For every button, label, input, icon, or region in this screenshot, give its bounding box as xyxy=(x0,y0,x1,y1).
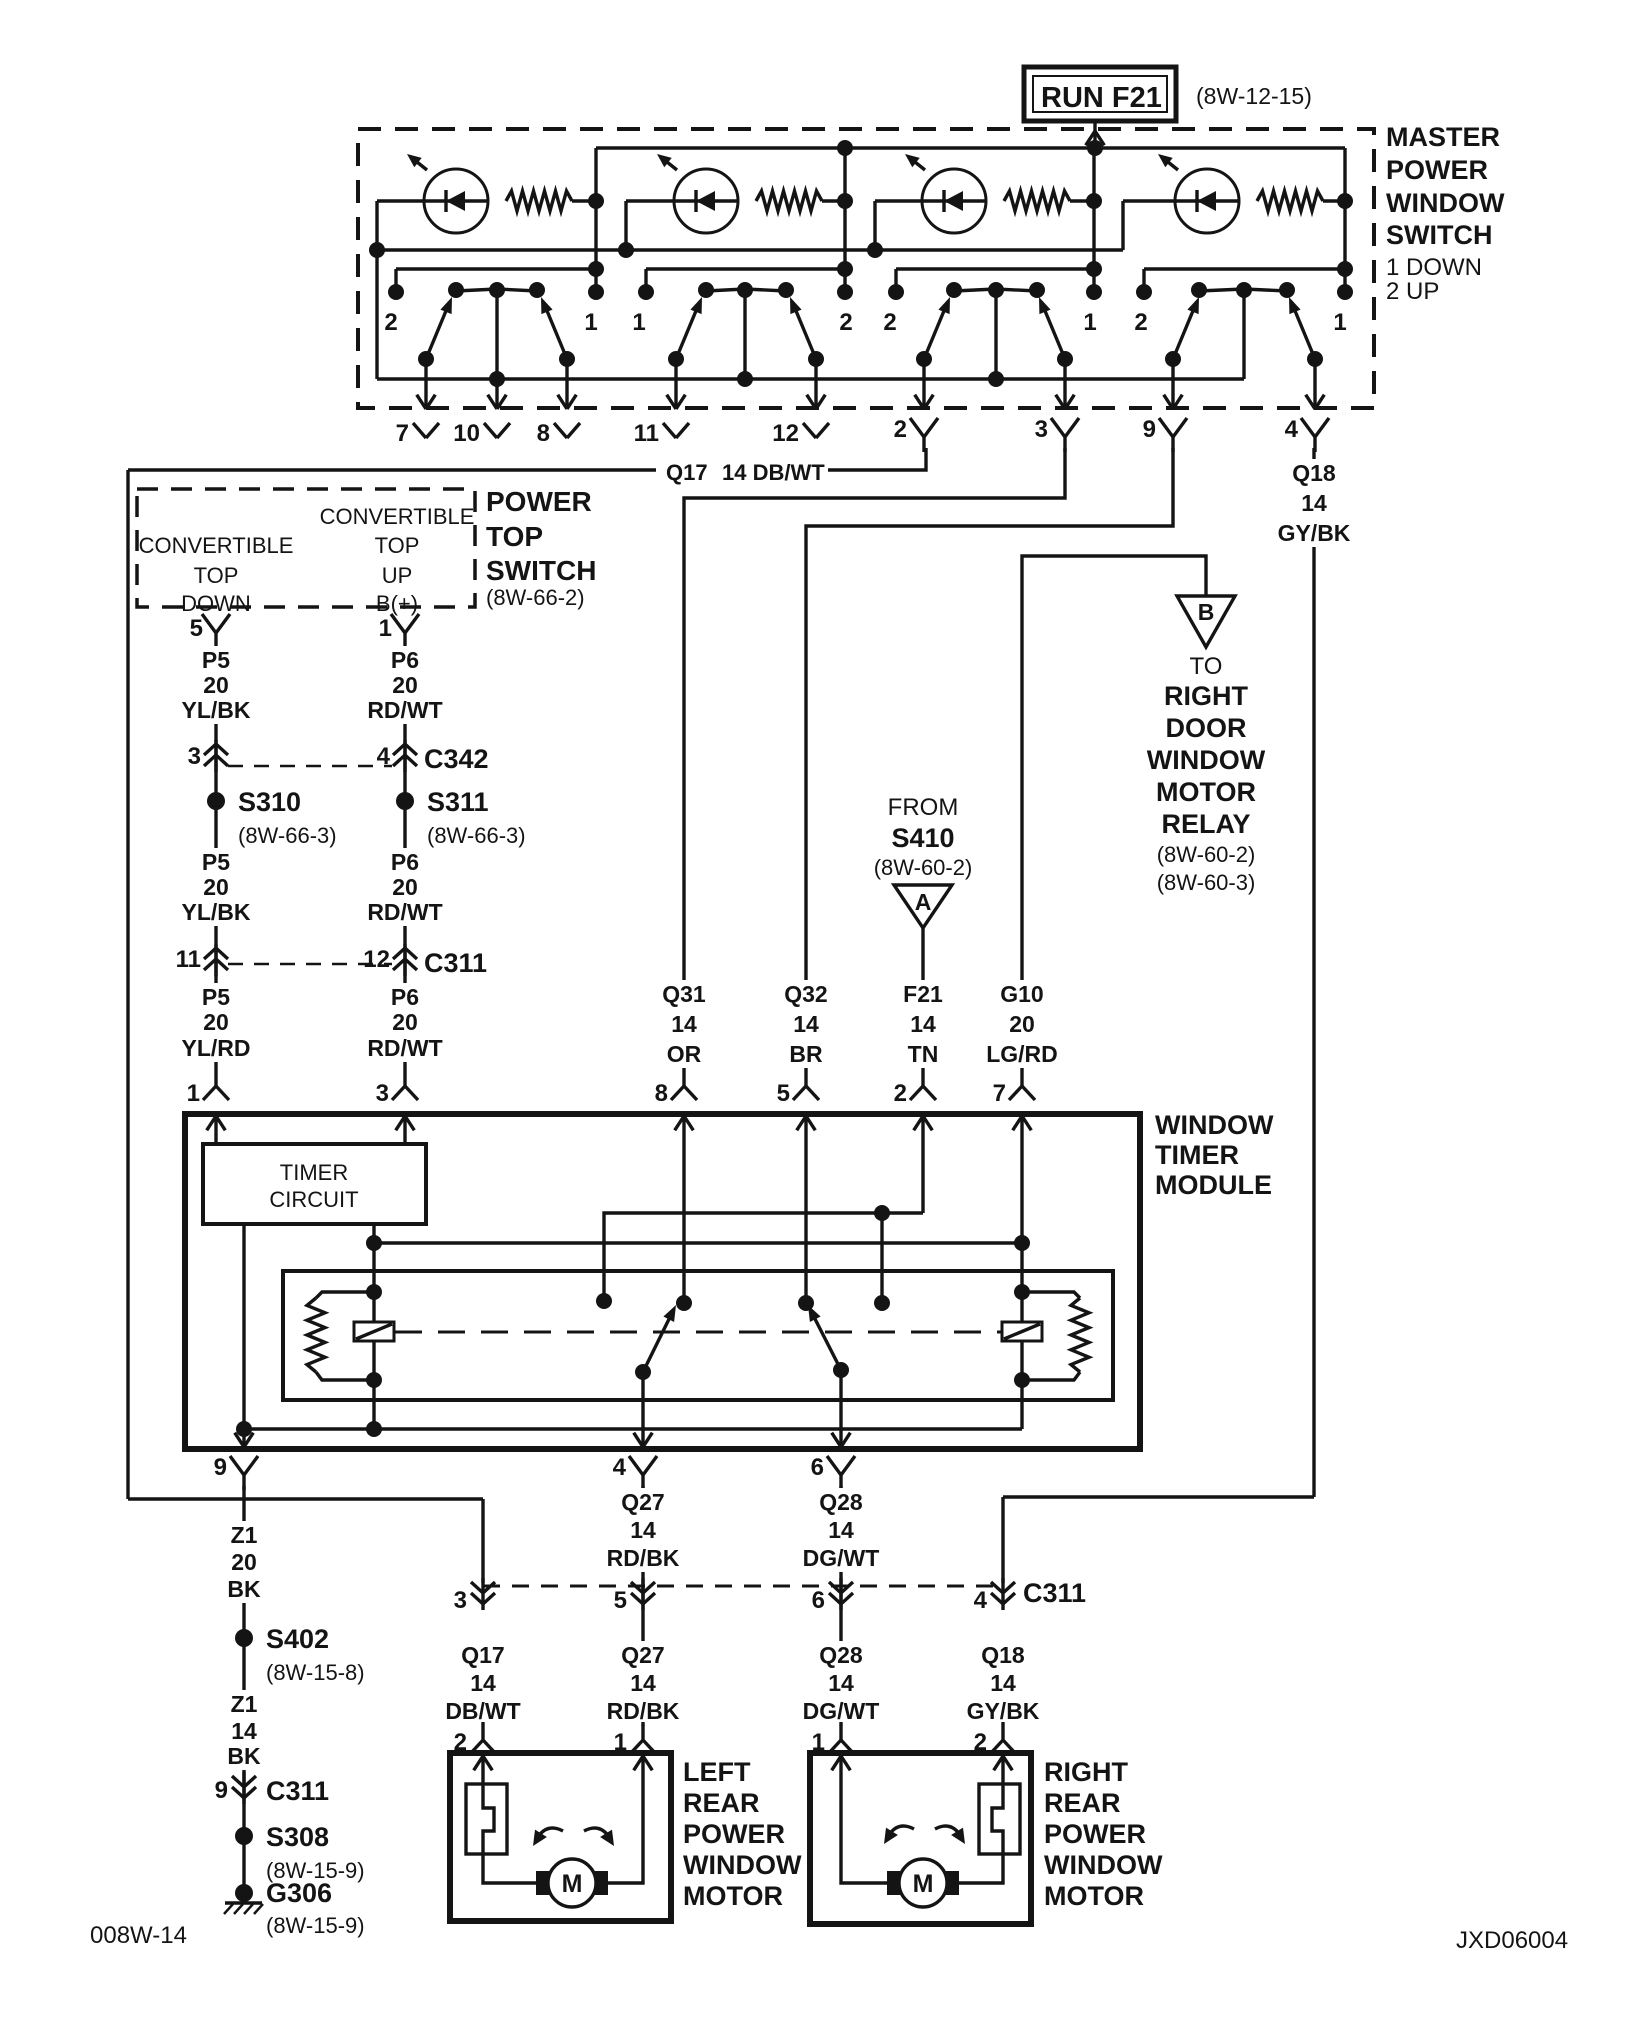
lower contact node unit2 b xyxy=(808,351,824,367)
contact node unit1 xyxy=(489,282,505,298)
contact node unit2 xyxy=(778,282,794,298)
svg-text:3: 3 xyxy=(376,1080,389,1107)
svg-text:(8W-66-3): (8W-66-3) xyxy=(427,823,526,848)
illumination arrow lamp L1 xyxy=(412,158,427,170)
splice S310 xyxy=(207,792,225,810)
lower contact node unit2 a xyxy=(668,351,684,367)
wire column unit2 right xyxy=(843,148,846,292)
node bus D unit2 xyxy=(737,371,753,387)
wire RUN F21 to bus A xyxy=(1093,121,1096,148)
svg-text:MASTER: MASTER xyxy=(1386,122,1500,152)
svg-text:6: 6 xyxy=(812,1587,825,1614)
resistor R1 xyxy=(506,191,572,211)
svg-text:S402: S402 xyxy=(266,1624,329,1654)
svg-text:14: 14 xyxy=(793,1011,819,1037)
relay contact blade left xyxy=(643,1315,671,1372)
illumination arrow lamp L3 xyxy=(910,158,925,170)
arrow pin 10 xyxy=(488,395,497,409)
circuit breaker left motor xyxy=(466,1784,507,1854)
svg-text:Q28: Q28 xyxy=(819,1642,863,1668)
node bus D pin10 xyxy=(489,371,505,387)
wire F21 from S410 xyxy=(921,928,924,1068)
svg-text:JXD06004: JXD06004 xyxy=(1456,1927,1568,1954)
contact row unit2 xyxy=(706,289,786,291)
node bus B lamp2 xyxy=(618,242,634,258)
dashed connector line C311 xyxy=(228,963,392,966)
node relay K1 top feed xyxy=(366,1235,382,1251)
svg-text:SWITCH: SWITCH xyxy=(1386,220,1492,250)
wire Q31 from master pin 3 xyxy=(684,448,1065,1068)
svg-text:4: 4 xyxy=(613,1454,627,1481)
arrow into right motor pin 1 xyxy=(841,1756,850,1770)
wire timer circuit to ground bus xyxy=(242,1224,245,1449)
contact node unit1 xyxy=(448,282,464,298)
wire resistor R4 to node xyxy=(1323,199,1345,202)
wire master switch pin 4 exit xyxy=(1313,359,1316,409)
wire resistor R3 to node xyxy=(1070,199,1094,202)
svg-text:11: 11 xyxy=(176,946,201,973)
window timer module box xyxy=(185,1114,1140,1449)
wire master switch pin 9 exit xyxy=(1171,359,1174,409)
wire Q18 from master pin 4 xyxy=(1312,448,1315,1497)
svg-text:7: 7 xyxy=(993,1080,1006,1107)
svg-text:2 UP: 2 UP xyxy=(1386,278,1439,305)
connector motor pin 1 xyxy=(641,1722,644,1740)
arrow pin 3 xyxy=(1056,395,1065,409)
wire P6 convertible top up xyxy=(403,648,406,1068)
svg-text:REAR: REAR xyxy=(1044,1788,1121,1818)
wire master switch pin 11 exit xyxy=(674,359,677,409)
svg-text:POWER: POWER xyxy=(1386,155,1488,185)
connector timer pin 3 xyxy=(403,1068,406,1086)
svg-text:M: M xyxy=(913,1870,934,1898)
svg-text:RD/BK: RD/BK xyxy=(607,1545,680,1571)
svg-text:(8W-15-9): (8W-15-9) xyxy=(266,1913,365,1938)
svg-text:MOTOR: MOTOR xyxy=(683,1881,783,1911)
contact node right switch xyxy=(874,1295,890,1311)
splice S402 xyxy=(235,1629,253,1647)
svg-text:YL/RD: YL/RD xyxy=(182,1035,251,1061)
svg-text:RIGHT: RIGHT xyxy=(1164,681,1249,711)
svg-text:WINDOW: WINDOW xyxy=(1155,1110,1274,1140)
svg-text:Q18: Q18 xyxy=(1292,460,1336,486)
node bus E timer circuit xyxy=(236,1421,252,1437)
contact node unit1 xyxy=(588,284,604,300)
node resistor/column xyxy=(1337,193,1353,209)
svg-text:3: 3 xyxy=(1035,416,1048,443)
svg-text:20: 20 xyxy=(203,874,229,900)
svg-text:TOP: TOP xyxy=(486,521,543,552)
arrow into timer pin 1 xyxy=(216,1116,225,1130)
connector C342 pin 4 xyxy=(403,740,406,772)
label wire Q17 14 DB/WT (lower) xyxy=(438,1641,528,1725)
svg-text:Q27: Q27 xyxy=(621,1489,664,1515)
svg-text:(8W-60-2): (8W-60-2) xyxy=(874,855,973,880)
svg-text:WINDOW: WINDOW xyxy=(683,1850,802,1880)
contact node unit2 xyxy=(837,284,853,300)
svg-text:WINDOW: WINDOW xyxy=(1044,1850,1163,1880)
connector C311 pin 4 xyxy=(1001,1578,1004,1610)
svg-text:14: 14 xyxy=(1301,490,1327,516)
label wire Z1 14 BK xyxy=(199,1690,289,1770)
switch blade unit4 b xyxy=(1293,306,1315,359)
label wire G10 20 LG/RD xyxy=(977,980,1067,1068)
node column/link xyxy=(1337,261,1353,277)
node relay K1 coil bottom xyxy=(366,1372,382,1388)
svg-text:CONVERTIBLE: CONVERTIBLE xyxy=(139,533,294,558)
dashed connector line C342 xyxy=(228,765,392,768)
node relay K2 coil bottom xyxy=(1014,1372,1030,1388)
wire F21 into module xyxy=(921,1116,924,1213)
label wire Q18 14 GY/BK (lower) xyxy=(958,1641,1048,1725)
master power window switch dashed box xyxy=(358,129,1374,408)
contact node unit4 xyxy=(1236,282,1252,298)
node resistor/column xyxy=(837,193,853,209)
arrow into left motor pin 2 xyxy=(483,1756,492,1770)
relay K2 coil xyxy=(1002,1322,1042,1341)
wire to timer pin 6 xyxy=(839,1370,842,1449)
stub unit4 outer contact xyxy=(1142,269,1145,292)
svg-text:CONVERTIBLE: CONVERTIBLE xyxy=(320,504,475,529)
connector timer pin 8 xyxy=(682,1068,685,1086)
connector V master pin 8 xyxy=(554,423,567,438)
arrow out of timer pin 9 xyxy=(235,1433,244,1447)
wire timer pin 1 into timer circuit xyxy=(214,1116,217,1144)
connector C311 pin 3 xyxy=(481,1578,484,1610)
contact node unit3 xyxy=(946,282,962,298)
contact node unit1 xyxy=(529,282,545,298)
wire column unit4 right xyxy=(1343,148,1346,292)
connector timer pin 2 xyxy=(921,1068,924,1086)
illumination lamp L2 xyxy=(674,169,738,233)
connector Y power top pin 5 xyxy=(202,614,216,633)
arrow into master switch xyxy=(1095,131,1104,145)
svg-text:FROM: FROM xyxy=(888,794,959,821)
contact node unit2 xyxy=(638,284,654,300)
arrow into right motor pin 2 xyxy=(1003,1756,1012,1770)
splice S311 xyxy=(396,792,414,810)
svg-text:RD/WT: RD/WT xyxy=(367,899,442,925)
svg-text:20: 20 xyxy=(1009,1011,1035,1037)
left rear power window motor box xyxy=(450,1753,671,1921)
label wire Q31 14 OR xyxy=(639,980,729,1068)
wire Q32 from master pin 9 xyxy=(806,448,1173,1068)
node bus A / RUN F21 feed xyxy=(1087,140,1103,156)
pivot node right switch xyxy=(798,1295,814,1311)
svg-text:2: 2 xyxy=(1134,309,1147,336)
motor M right xyxy=(899,1859,947,1907)
wire resistor R1 to node xyxy=(572,199,596,202)
svg-text:2: 2 xyxy=(883,309,896,336)
wire unit4 middle contact drop xyxy=(1242,289,1245,379)
svg-text:RD/BK: RD/BK xyxy=(607,1698,680,1724)
connector timer pin 1 xyxy=(214,1068,217,1086)
switch blade unit2 b xyxy=(794,306,816,359)
node relay K2 coil top xyxy=(1014,1284,1030,1300)
svg-text:DB/WT: DB/WT xyxy=(445,1698,520,1724)
svg-text:TOP: TOP xyxy=(375,533,420,558)
arrow pin 4 xyxy=(1306,395,1315,409)
power top switch dashed box xyxy=(137,489,475,607)
svg-text:(8W-66-3): (8W-66-3) xyxy=(238,823,337,848)
arrow pin 9 xyxy=(1164,395,1173,409)
svg-text:LG/RD: LG/RD xyxy=(986,1041,1058,1067)
splice S308 xyxy=(235,1827,253,1845)
svg-text:Q17: Q17 xyxy=(666,460,708,485)
svg-text:Q17: Q17 xyxy=(461,1642,504,1668)
svg-text:14: 14 xyxy=(231,1718,257,1744)
diode D4 xyxy=(1195,190,1198,212)
lower contact node unit3 b xyxy=(1057,351,1073,367)
connector C342 pin 3 xyxy=(214,740,217,772)
svg-text:S308: S308 xyxy=(266,1822,329,1852)
wire P5 convertible top down xyxy=(214,648,217,1068)
relay contact blade right xyxy=(813,1315,841,1370)
svg-text:(8W-60-2): (8W-60-2) xyxy=(1157,842,1256,867)
connector Y master pin 9 xyxy=(1159,418,1173,437)
label wire Q27 14 RD/BK (upper) xyxy=(598,1488,688,1572)
wire to timer pin 4 xyxy=(641,1372,644,1449)
wire relay K2 bottom to bus E xyxy=(1020,1380,1023,1429)
wire lamp L2 left lead xyxy=(626,199,674,202)
svg-text:P5: P5 xyxy=(202,849,230,875)
svg-text:UP: UP xyxy=(382,563,413,588)
arrow pin 7 xyxy=(417,395,426,409)
node bus E relay K1 xyxy=(366,1421,382,1437)
bus D (switch common) xyxy=(377,377,1244,380)
bus A (ignition feed inside switch) xyxy=(596,146,1345,149)
svg-text:20: 20 xyxy=(392,1009,418,1035)
arrow into left motor pin 1 xyxy=(643,1756,652,1770)
node column/link xyxy=(1086,261,1102,277)
contact node unit4 xyxy=(1136,284,1152,300)
svg-text:GY/BK: GY/BK xyxy=(1278,520,1351,546)
resistor R2 xyxy=(756,191,822,211)
svg-text:8: 8 xyxy=(537,420,550,447)
arrow into timer pin 5 xyxy=(806,1116,815,1130)
wire lamp L1 left lead xyxy=(377,199,424,202)
rotation arrows right motor xyxy=(887,1826,914,1838)
illumination lamp L4 xyxy=(1175,169,1239,233)
contact row unit1 xyxy=(456,289,537,291)
svg-text:BK: BK xyxy=(227,1743,261,1769)
svg-text:TIMER: TIMER xyxy=(1155,1140,1239,1170)
svg-text:8: 8 xyxy=(655,1080,668,1107)
svg-text:RD/WT: RD/WT xyxy=(367,697,442,723)
connector Y timer pin 4 xyxy=(629,1456,643,1475)
svg-text:C311: C311 xyxy=(424,948,487,978)
svg-text:DG/WT: DG/WT xyxy=(803,1698,880,1724)
node resistor/column xyxy=(588,193,604,209)
dashed relay actuation link xyxy=(395,1331,1002,1334)
svg-text:1 DOWN: 1 DOWN xyxy=(1386,254,1482,281)
svg-text:SWITCH: SWITCH xyxy=(486,555,596,586)
switch blade unit4 a xyxy=(1173,306,1195,359)
svg-text:YL/BK: YL/BK xyxy=(182,697,251,723)
svg-text:4: 4 xyxy=(974,1587,988,1614)
svg-text:1: 1 xyxy=(1083,309,1096,336)
svg-text:C311: C311 xyxy=(266,1776,329,1806)
off-page connector A xyxy=(894,885,952,928)
svg-text:5: 5 xyxy=(777,1080,790,1107)
off-page connector B xyxy=(1177,596,1235,647)
svg-text:9: 9 xyxy=(1143,416,1156,443)
svg-text:Q28: Q28 xyxy=(819,1489,863,1515)
contact node unit4 xyxy=(1337,284,1353,300)
svg-text:20: 20 xyxy=(392,874,418,900)
arrow out of timer pin 6 xyxy=(832,1433,841,1447)
node column/link xyxy=(588,261,604,277)
svg-text:TIMER: TIMER xyxy=(280,1160,348,1185)
svg-text:S311: S311 xyxy=(427,787,489,817)
wire lamp L3 left lead xyxy=(875,199,922,202)
svg-text:1: 1 xyxy=(1333,309,1346,336)
connector V master pin 12 xyxy=(803,423,816,438)
illumination lamp L3 xyxy=(922,169,986,233)
svg-text:MOTOR: MOTOR xyxy=(1156,777,1256,807)
connector motor pin 1 xyxy=(839,1722,842,1740)
wire through breaker left xyxy=(483,1754,548,1883)
svg-text:REAR: REAR xyxy=(683,1788,760,1818)
svg-text:M: M xyxy=(562,1870,583,1898)
node relay K1 coil top xyxy=(366,1284,382,1300)
svg-text:WINDOW: WINDOW xyxy=(1386,188,1505,218)
svg-text:P5: P5 xyxy=(202,984,230,1010)
resistor R3 xyxy=(1004,191,1070,211)
svg-text:WINDOW: WINDOW xyxy=(1147,745,1266,775)
pivot node left switch xyxy=(676,1295,692,1311)
wire lamp1 drop to bus D xyxy=(375,201,378,379)
label wire F21 14 TN xyxy=(878,980,968,1068)
svg-text:POWER: POWER xyxy=(1044,1819,1146,1849)
connector motor pin 2 xyxy=(1001,1722,1004,1740)
svg-text:1: 1 xyxy=(187,1080,200,1107)
svg-text:11: 11 xyxy=(634,420,659,447)
label wire Q18 14 GY/BK xyxy=(1269,459,1359,547)
switch blade unit3 a xyxy=(924,306,946,359)
node bus B lamp3 xyxy=(867,242,883,258)
node bus D unit3 xyxy=(988,371,1004,387)
svg-text:B: B xyxy=(1198,599,1215,625)
arrow into timer pin 8 xyxy=(684,1116,693,1130)
connector Y timer pin 6 xyxy=(827,1456,841,1475)
connector V master pin 11 xyxy=(663,423,676,438)
svg-text:14: 14 xyxy=(630,1670,656,1696)
svg-text:G10: G10 xyxy=(1000,981,1043,1007)
resistor R6 (parallel right) xyxy=(1022,1292,1080,1298)
svg-text:G306: G306 xyxy=(266,1878,332,1908)
svg-text:BK: BK xyxy=(227,1576,261,1602)
switch blade unit2 a xyxy=(676,306,698,359)
connector Y master pin 2 xyxy=(910,418,924,437)
node bus A / lamp 2 feed xyxy=(837,140,853,156)
svg-text:2: 2 xyxy=(894,1080,907,1107)
node bus G drop right xyxy=(874,1205,890,1221)
wire through breaker right xyxy=(958,1754,1003,1883)
svg-text:9: 9 xyxy=(215,1777,228,1804)
svg-text:DOWN: DOWN xyxy=(181,591,251,616)
connector C311 pin 12 xyxy=(403,944,406,976)
svg-text:P6: P6 xyxy=(391,647,419,673)
wire column unit1 right xyxy=(594,148,597,292)
svg-text:GY/BK: GY/BK xyxy=(967,1698,1040,1724)
wire master switch pin 10 exit xyxy=(495,379,498,409)
diode D1 xyxy=(444,190,447,212)
wire timer pin 3 into timer circuit xyxy=(403,1116,406,1144)
svg-text:MOTOR: MOTOR xyxy=(1044,1881,1144,1911)
contact node unit4 xyxy=(1279,282,1295,298)
arrow into timer pin 7 xyxy=(1022,1116,1031,1130)
svg-text:20: 20 xyxy=(203,672,229,698)
svg-text:Q31: Q31 xyxy=(662,981,706,1007)
svg-text:14: 14 xyxy=(910,1011,936,1037)
svg-text:B(+): B(+) xyxy=(376,591,418,616)
label wire Q28 14 DG/WT (lower) xyxy=(796,1641,886,1725)
svg-text:Z1: Z1 xyxy=(231,1522,258,1548)
label wire P6 20 RD/WT (lower) xyxy=(360,983,450,1062)
ground G306 xyxy=(235,1884,253,1902)
lower contact node unit4 a xyxy=(1165,351,1181,367)
svg-text:TO: TO xyxy=(1190,653,1223,680)
wire lamp L4 left lead xyxy=(1123,199,1175,202)
bus B (lamp common) xyxy=(377,248,1123,251)
svg-text:TN: TN xyxy=(908,1041,939,1067)
label wire P6 20 RD/WT (upper) xyxy=(360,646,450,724)
rotation arrows left motor xyxy=(536,1828,563,1840)
svg-text:2: 2 xyxy=(384,309,397,336)
wire bus G to contact right xyxy=(880,1213,883,1303)
svg-text:14: 14 xyxy=(630,1517,656,1543)
wire timer circuit to relay K1 xyxy=(372,1224,375,1429)
svg-text:14: 14 xyxy=(990,1670,1016,1696)
svg-text:RUN F21: RUN F21 xyxy=(1041,82,1162,114)
contact node unit3 xyxy=(1086,284,1102,300)
wire master switch pin 12 exit xyxy=(814,359,817,409)
contact node unit1 xyxy=(388,284,404,300)
svg-text:12: 12 xyxy=(772,420,799,447)
svg-text:YL/BK: YL/BK xyxy=(182,899,251,925)
dashed connector line C311 bottom xyxy=(483,1585,1003,1588)
wire lamp4 drop to bus B xyxy=(1121,201,1124,250)
label wire P5 20 YL/BK (upper) xyxy=(171,646,261,724)
diode D2 xyxy=(694,190,697,212)
bus F relay feed xyxy=(374,1241,1022,1244)
label wire P5 20 YL/BK (mid) xyxy=(171,848,261,926)
svg-text:Q18: Q18 xyxy=(981,1642,1025,1668)
svg-text:(8W-15-8): (8W-15-8) xyxy=(266,1660,365,1685)
wire G10 to right door window motor relay xyxy=(1022,556,1206,1068)
svg-text:P5: P5 xyxy=(202,647,230,673)
wire left motor pin1 lead xyxy=(608,1754,643,1883)
link wire unit1 outer contact xyxy=(396,267,596,270)
switch blade unit3 b xyxy=(1043,306,1065,359)
svg-text:C311: C311 xyxy=(1023,1578,1086,1608)
svg-text:14: 14 xyxy=(470,1670,496,1696)
wire master switch pin 2 exit xyxy=(922,359,925,409)
svg-text:DG/WT: DG/WT xyxy=(803,1545,880,1571)
wire Z1 ground chain xyxy=(242,1486,245,1894)
svg-text:(8W-60-3): (8W-60-3) xyxy=(1157,870,1256,895)
svg-text:10: 10 xyxy=(453,420,480,447)
svg-text:A: A xyxy=(915,889,932,915)
wire Q28 timer pin 6 to motor xyxy=(839,1486,842,1726)
label wire Q27 14 RD/BK (lower) xyxy=(598,1641,688,1725)
svg-text:9: 9 xyxy=(214,1454,227,1481)
link wire unit4 outer contact xyxy=(1144,267,1345,270)
stub unit1 outer contact xyxy=(394,269,397,292)
svg-text:2: 2 xyxy=(839,309,852,336)
node column/link xyxy=(837,261,853,277)
